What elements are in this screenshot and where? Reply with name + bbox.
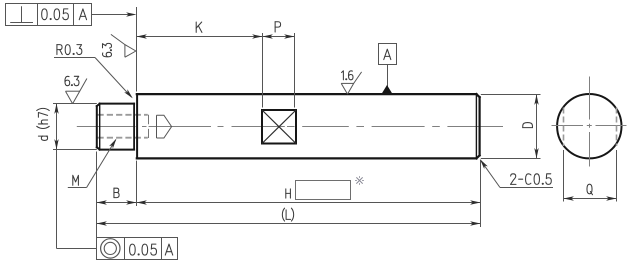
- end view center lines: [552, 77, 627, 167]
- text H: [286, 189, 291, 198]
- text 0.05 top frame: [42, 9, 69, 20]
- surface finish 1.6 on shaft top: [341, 72, 361, 94]
- text P: [275, 22, 280, 32]
- threaded stub outline: [97, 104, 134, 150]
- extension line shoulder (down): [136, 161, 138, 206]
- extension line right face (down): [480, 161, 482, 227]
- H value box: [296, 181, 351, 200]
- thread hidden lines (tapped hole M): [98, 115, 148, 138]
- text L: [282, 208, 293, 221]
- text 0.05 bottom frame: [130, 244, 157, 255]
- leader R0.3: [54, 58, 133, 99]
- extension lines of flat (P): [263, 33, 295, 108]
- text A bottom frame: [165, 244, 172, 255]
- text d h7: [37, 108, 50, 140]
- surface finish 6.3 on stub: [66, 79, 87, 104]
- flat square with diagonals: [262, 110, 296, 144]
- datum A flag: [379, 44, 397, 87]
- text 2-C0.5: [510, 174, 551, 185]
- text Q: [587, 184, 593, 194]
- concentricity feature control frame: [97, 238, 178, 260]
- center line main view: [77, 126, 503, 128]
- text A datum: [384, 49, 391, 59]
- dimension (L): [97, 221, 481, 225]
- leader from perpendicularity frame: [91, 12, 136, 16]
- dimension K: [137, 34, 263, 38]
- dimension H: [137, 200, 481, 204]
- leader to concentricity frame: [57, 248, 97, 250]
- extension line left face (down): [96, 152, 98, 238]
- text B: [114, 188, 119, 197]
- text 6.3 stub: [65, 76, 79, 85]
- text D: [523, 123, 533, 128]
- leader M: [68, 139, 117, 188]
- dimension D: [481, 95, 541, 159]
- hidden flat lines end view: [564, 108, 617, 147]
- reference mark: [356, 177, 364, 185]
- surface finish 6.3 rotated on shoulder extension: [111, 34, 136, 57]
- thread end line: [148, 115, 150, 138]
- extension line of shoulder face (up): [136, 7, 138, 92]
- text K: [196, 22, 202, 32]
- center drill cone: [157, 115, 172, 138]
- end view circle: [557, 94, 621, 158]
- leader 2-C0.5: [480, 159, 553, 187]
- text A top frame: [79, 9, 86, 20]
- text M: [73, 175, 79, 185]
- dimension P: [263, 34, 295, 38]
- shaft body outline: [137, 94, 480, 158]
- dimension d (h7): [53, 104, 97, 249]
- text 1.6: [342, 71, 353, 80]
- dimension B: [97, 200, 137, 204]
- dimension Q: [564, 150, 617, 202]
- perpendicularity feature control frame: [6, 4, 92, 26]
- text 6.3 rotated: [103, 43, 112, 56]
- text R0.3: [57, 45, 82, 55]
